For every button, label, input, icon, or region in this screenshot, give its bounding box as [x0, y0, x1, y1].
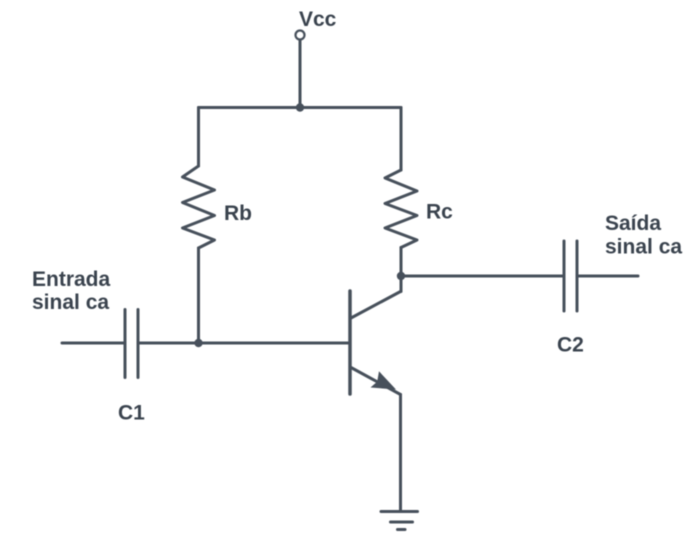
svg-text:Vcc: Vcc: [299, 8, 337, 31]
wire Rb bottom lead: [197, 248, 200, 343]
capacitor C2: [564, 241, 577, 311]
junction top rail / Vcc: [296, 103, 304, 111]
ground: [381, 512, 418, 530]
wire Vcc stem: [299, 40, 302, 108]
wire input lead: [62, 342, 125, 345]
svg-text:Saída: Saída: [605, 212, 661, 235]
transistor Q1: [350, 291, 401, 395]
svg-text:sinal ca: sinal ca: [605, 236, 682, 259]
wire Rb top lead: [197, 108, 200, 167]
resistor Rc: [385, 170, 417, 248]
svg-text:Rc: Rc: [426, 201, 453, 224]
capacitor C1: [125, 310, 138, 378]
junction collector node: [397, 272, 405, 280]
svg-text:C2: C2: [557, 334, 584, 357]
wire top rail: [199, 106, 402, 109]
wire Rc top lead: [400, 108, 403, 171]
resistor Rb: [183, 166, 215, 248]
terminal Vcc: [296, 31, 305, 40]
wire collector node to C2: [401, 275, 564, 278]
svg-text:Rb: Rb: [224, 202, 252, 225]
wire emitter to ground: [399, 395, 402, 512]
wire base: [138, 342, 350, 345]
svg-text:Entrada: Entrada: [32, 268, 111, 291]
svg-text:C1: C1: [118, 402, 145, 425]
wire C2 output: [577, 275, 638, 278]
svg-text:sinal ca: sinal ca: [32, 291, 109, 314]
junction base node: [194, 339, 202, 347]
wire Rc bottom lead / collector riser: [400, 248, 403, 292]
transistor Q1 emitter arrow: [371, 371, 397, 389]
